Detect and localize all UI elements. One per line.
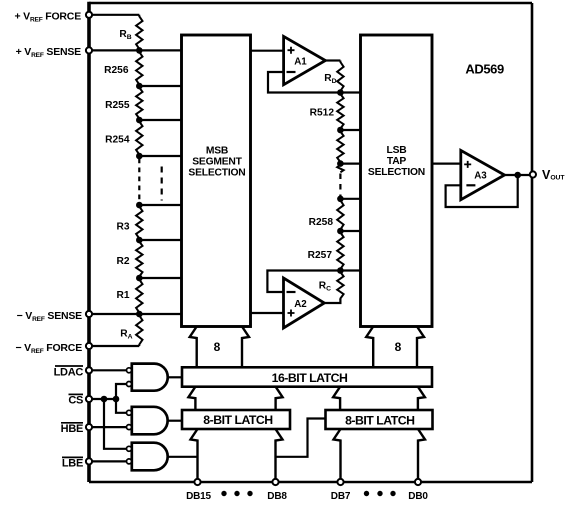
- label R257: [308, 250, 333, 261]
- junction R257/RC: [337, 267, 344, 274]
- svg-text:LBE: LBE: [62, 458, 83, 470]
- label RB: [119, 29, 131, 41]
- wire right border: [531, 3, 534, 482]
- wire RD junction to LSB box: [340, 91, 360, 93]
- wire tap above R3: [139, 204, 181, 206]
- op-amp A3: [461, 150, 505, 199]
- terminal Vout: [530, 171, 536, 177]
- svg-text:SELECTION: SELECTION: [368, 167, 425, 178]
- junction R256/R255: [136, 83, 143, 90]
- block 16-bit latch: [182, 367, 432, 386]
- label LBE: [62, 457, 83, 469]
- label RD: [324, 73, 336, 85]
- svg-text:SEGMENT: SEGMENT: [192, 157, 242, 168]
- label R258: [309, 217, 334, 228]
- label bus width 8 right: [395, 340, 402, 354]
- junction R258 top: [337, 196, 344, 203]
- resistor R2: [136, 240, 142, 278]
- resistor mid unlabeled: [337, 130, 343, 164]
- op-amp A2: [284, 278, 325, 328]
- wire +Vref force to Rb: [89, 14, 139, 16]
- wire left border: [87, 2, 91, 482]
- bus arrow latch8L to latch16: [188, 387, 282, 410]
- label RA: [120, 329, 132, 341]
- wire gate3 output: [168, 419, 326, 457]
- svg-text:R512: R512: [310, 108, 335, 119]
- wire tap mid: [340, 163, 360, 165]
- svg-text:DB15: DB15: [186, 491, 211, 500]
- wire dashed ladder continuation: [138, 159, 140, 204]
- wire MSB to A1 +input: [251, 50, 284, 52]
- svg-text:R2: R2: [116, 256, 129, 267]
- resistor R512: [337, 93, 343, 131]
- wire tap R2/R1: [139, 277, 181, 279]
- svg-text:8: 8: [395, 340, 402, 354]
- svg-text:R3: R3: [116, 222, 129, 233]
- wire tap R255/R254: [139, 119, 181, 121]
- wire dashed mid ladder: [339, 174, 341, 199]
- wire A3 feedback: [446, 175, 518, 207]
- label +Vref sense: [16, 46, 82, 59]
- label CS: [68, 394, 83, 406]
- junction R2/R1: [136, 275, 143, 282]
- junction A3 feedback: [514, 172, 521, 179]
- wire LBE input: [89, 460, 127, 462]
- wire CS to gate1: [116, 384, 127, 399]
- resistor RD: [337, 61, 343, 93]
- wire dashed ladder continuation 2: [161, 167, 163, 201]
- block MSB segment selection: [182, 35, 251, 327]
- svg-text:DB7: DB7: [331, 491, 351, 500]
- svg-text:R255: R255: [105, 100, 130, 111]
- svg-text:AD569: AD569: [465, 61, 504, 76]
- label R256: [104, 65, 129, 76]
- svg-text:HBE: HBE: [61, 423, 83, 435]
- wire CS to gate3: [104, 399, 127, 449]
- wire tap below R254: [139, 155, 181, 157]
- wire CS input: [89, 398, 116, 400]
- bus arrow DB15-DB8 to latch8L: [191, 429, 283, 482]
- wire top border: [89, 2, 532, 5]
- junction mid tap: [337, 160, 344, 167]
- bus arrow 8 to LSB: [366, 327, 424, 368]
- svg-text:8-BIT LATCH: 8-BIT LATCH: [203, 413, 273, 427]
- terminal +Vref sense: [86, 47, 92, 53]
- resistor R257: [337, 231, 343, 271]
- wire tap above R258: [340, 198, 360, 200]
- terminal CS: [86, 396, 92, 402]
- label RC: [319, 281, 331, 293]
- label R1: [116, 290, 129, 301]
- wire MSB to A2 +input: [251, 312, 284, 314]
- terminal LDAC: [86, 367, 92, 373]
- svg-text:SELECTION: SELECTION: [188, 167, 245, 178]
- junction CS branch B: [113, 396, 120, 403]
- svg-text:R256: R256: [104, 65, 129, 76]
- svg-text:LDAC: LDAC: [54, 366, 84, 378]
- junction R254/dash: [136, 153, 143, 160]
- wire LSB to A3 +input: [432, 163, 461, 165]
- junction +Vref sense: [136, 47, 143, 54]
- wire RC bottom: [324, 299, 340, 303]
- label R255: [105, 100, 130, 111]
- bus arrow DB7-DB0 to latch8R: [334, 429, 426, 482]
- AND gate G3 (CS/LBE): [127, 443, 168, 471]
- svg-text:R254: R254: [105, 135, 130, 146]
- op-amp A1: [284, 36, 326, 84]
- ellipsis dots DB7-DB0: [364, 491, 396, 496]
- wire A2 feedback: [267, 271, 340, 293]
- wire gate1 output: [168, 376, 182, 378]
- wire LDAC input: [89, 369, 127, 371]
- terminal +Vref force: [86, 12, 92, 18]
- resistor R256: [136, 50, 142, 86]
- label -Vref force: [15, 342, 82, 355]
- wire CS to gate2: [116, 399, 127, 413]
- resistor RA: [136, 314, 142, 346]
- wire tap RC junction: [340, 269, 360, 271]
- resistor RC: [337, 271, 343, 301]
- wire tap R512 bottom: [340, 129, 360, 131]
- junction R255/R254: [136, 117, 143, 124]
- resistor R255: [136, 86, 142, 120]
- wire HBE input: [89, 426, 127, 428]
- junction R258/R257: [337, 228, 344, 235]
- label Vout: [542, 168, 565, 182]
- wire tap R256/R255: [139, 85, 181, 87]
- label DB0: [408, 491, 428, 502]
- svg-text:CS: CS: [68, 395, 83, 407]
- resistor R1: [136, 278, 142, 314]
- label R512: [310, 108, 335, 119]
- junction CS branch A: [101, 396, 108, 403]
- svg-text:+ VREF FORCE: + VREF FORCE: [14, 10, 81, 23]
- resistor R258: [337, 199, 343, 231]
- junction -Vref sense: [136, 311, 143, 318]
- svg-text:TAP: TAP: [387, 156, 407, 167]
- junction dash/R3: [136, 202, 143, 209]
- block LSB tap selection: [361, 35, 433, 327]
- terminal HBE: [86, 424, 92, 430]
- label R254: [105, 135, 130, 146]
- wire tap R258/R257: [340, 230, 360, 232]
- junction RD/R512: [337, 89, 344, 96]
- resistor stub below tap: [337, 164, 343, 173]
- terminal DB0: [415, 479, 421, 485]
- svg-text:+ VREF SENSE: + VREF SENSE: [16, 46, 82, 59]
- label DB15: [186, 491, 211, 502]
- bus arrow latch8R to latch16: [333, 387, 425, 410]
- svg-text:16-BIT LATCH: 16-BIT LATCH: [272, 371, 348, 385]
- label -Vref sense: [17, 310, 83, 323]
- svg-text:A1: A1: [294, 57, 307, 68]
- AND gate G1 (LDAC/CS): [127, 364, 168, 391]
- resistor RB: [136, 15, 142, 51]
- bus arrow 8 to MSB: [190, 327, 249, 368]
- svg-text:− VREF SENSE: − VREF SENSE: [17, 310, 83, 323]
- label R2: [116, 256, 129, 267]
- wire A1 feedback: [268, 72, 340, 93]
- svg-text:A2: A2: [294, 299, 307, 310]
- junction R3/R2: [136, 237, 143, 244]
- svg-text:LSB: LSB: [387, 145, 407, 156]
- svg-text:8-BIT LATCH: 8-BIT LATCH: [345, 413, 415, 427]
- svg-text:DB0: DB0: [408, 491, 428, 500]
- label DB8: [267, 491, 287, 502]
- svg-text:R257: R257: [308, 250, 333, 261]
- svg-text:R1: R1: [116, 290, 129, 301]
- wire tap R3/R2: [139, 239, 181, 241]
- terminal LBE: [86, 458, 92, 464]
- block 8-bit latch low byte: [326, 410, 433, 429]
- label LDAC: [54, 366, 84, 378]
- svg-text:MSB: MSB: [206, 146, 228, 157]
- svg-text:DB8: DB8: [267, 491, 287, 500]
- label +Vref force: [14, 10, 81, 23]
- wire A3 output: [505, 174, 532, 176]
- label HBE: [61, 423, 83, 435]
- svg-text:R258: R258: [309, 217, 334, 228]
- label AD569: [465, 61, 504, 76]
- wire bottom data bus rail: [89, 481, 532, 484]
- terminal DB15: [194, 479, 200, 485]
- wire -Vref force to Ra: [89, 345, 139, 347]
- label DB7: [331, 491, 351, 502]
- resistor R3: [136, 205, 142, 240]
- wire -Vref sense row: [89, 313, 182, 315]
- terminal -Vref force: [86, 343, 92, 349]
- wire A1 output to RD: [325, 59, 340, 61]
- terminal DB8: [272, 479, 278, 485]
- svg-text:A3: A3: [474, 170, 487, 181]
- label R3: [116, 222, 129, 233]
- ellipsis dots DB15-DB8: [221, 491, 252, 496]
- wire +Vref sense row: [89, 49, 182, 51]
- label bus width 8 left: [214, 340, 221, 354]
- AND gate G2 (CS/HBE): [127, 407, 168, 435]
- terminal -Vref sense: [86, 311, 92, 317]
- svg-text:8: 8: [214, 340, 221, 354]
- resistor R254: [136, 120, 142, 156]
- block 8-bit latch high byte: [182, 410, 290, 429]
- junction R512: [337, 127, 344, 134]
- wire gate2 output: [168, 420, 182, 422]
- svg-text:− VREF FORCE: − VREF FORCE: [15, 342, 82, 355]
- terminal DB7: [337, 479, 343, 485]
